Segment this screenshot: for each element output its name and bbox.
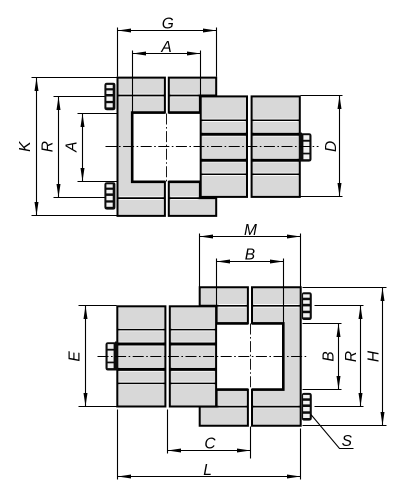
svg-text:C: C (204, 435, 216, 452)
svg-text:K: K (17, 141, 34, 152)
dimension D (301, 96, 343, 197)
svg-text:H: H (365, 350, 382, 362)
dimension R right (315, 306, 364, 407)
view1 left half row lines (120, 96, 163, 199)
view2 left bottom row line (219, 405, 246, 408)
view2 right half row lines (254, 306, 298, 407)
view1 clamp right bottom piece (169, 182, 216, 216)
svg-text:G: G (162, 16, 174, 33)
svg-text:B: B (321, 351, 338, 361)
view2 left top row line (219, 304, 246, 307)
view2 body inner block thin lamella lines (172, 330, 214, 384)
view1 right bottom row line (171, 196, 198, 199)
view2 body inner block thick lamella lines (172, 344, 214, 369)
svg-text:B: B (245, 247, 255, 264)
dimension A left (63, 114, 116, 182)
dimension B top (217, 247, 284, 323)
view1 clamp screw top head (104, 83, 115, 110)
view2 clamp screw top slots (303, 294, 310, 317)
dimension K (17, 78, 116, 216)
view2 clamp left top piece (200, 287, 248, 323)
view2 clamp left bottom piece (200, 390, 248, 426)
view1 hole boundary emphasis (132, 113, 200, 182)
svg-text:M: M (244, 222, 257, 239)
view1 body outer block thick lamella lines (254, 134, 298, 160)
dimension C (168, 410, 251, 459)
dimension E (66, 306, 116, 407)
view1 body inner block thick lamella lines (203, 134, 245, 160)
view1 vertical centerline (166, 114, 168, 182)
svg-text:A: A (63, 142, 80, 153)
view2 axial screw washer (115, 342, 118, 371)
view1 clamp screw bottom head (104, 182, 115, 209)
dimension R (39, 97, 104, 198)
dimension B right (303, 324, 342, 390)
svg-text:R: R (39, 141, 56, 152)
view1 right top row line (171, 94, 198, 97)
dimension A top (133, 39, 201, 113)
view2 body outer block thin lamella lines (120, 330, 164, 384)
dimension G (118, 16, 217, 77)
view2 axial screw head (106, 342, 118, 370)
label S with leader (311, 414, 354, 450)
svg-text:A: A (160, 39, 171, 56)
view2 vertical centerline (250, 324, 252, 390)
dimension L (118, 410, 301, 480)
view2 axial screw slots (108, 344, 114, 368)
view1 clamp left half (118, 78, 165, 216)
view2 body outer block thick lamella lines (120, 344, 164, 369)
view2 body outer block (117, 306, 165, 406)
view2 clamp screw bottom slots (303, 395, 310, 418)
view1 body outer block thin lamella lines (254, 120, 298, 174)
view1 clamp right top piece (169, 78, 216, 113)
view2 clamp screw top head (302, 292, 312, 320)
dimension H (303, 288, 387, 426)
view2 clamp screw bottom head (302, 393, 312, 421)
svg-text:R: R (343, 351, 360, 362)
view1 body inner block (201, 96, 247, 196)
svg-text:D: D (323, 141, 340, 152)
view1 clamp screw bottom slots (106, 184, 112, 207)
svg-text:L: L (203, 462, 212, 479)
view1 horizontal centerline (106, 146, 319, 148)
svg-text:E: E (66, 351, 83, 362)
dimension M (200, 222, 301, 287)
view1 body inner block thin lamella lines (203, 120, 245, 174)
view1 axial screw slots (303, 135, 309, 159)
view2 horizontal centerline (98, 356, 309, 358)
view1 axial screw washer (299, 133, 302, 162)
view1 axial screw head (300, 133, 312, 161)
view1 body outer block (252, 96, 300, 196)
svg-text:S: S (342, 433, 353, 450)
view2 hole boundary emphasis (216, 323, 283, 389)
view1 clamp screw top slots (106, 85, 112, 107)
view2 body inner block (170, 306, 216, 406)
view2 clamp right half (252, 287, 301, 425)
